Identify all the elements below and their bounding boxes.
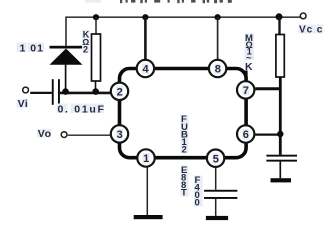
label inside U1 (rotated text column, upper part) [181, 114, 189, 156]
pin 4 [137, 60, 154, 77]
capacitor C2 [266, 155, 297, 179]
svg-text:4: 4 [143, 64, 150, 76]
svg-text:1 01: 1 01 [20, 42, 44, 54]
wire rail to pin 8 [217, 17, 219, 59]
wire Vo to pin 3 [68, 134, 110, 136]
svg-text:0. 01uF: 0. 01uF [58, 104, 106, 116]
clipped title text fragments at top [85, 0, 232, 3]
junction dot on rail above R1 [93, 14, 99, 20]
svg-text:8: 8 [215, 64, 221, 76]
diode D1 [50, 46, 83, 93]
pin 7 [237, 81, 254, 98]
svg-text:7: 7 [243, 85, 249, 97]
label Vi [17, 98, 29, 110]
svg-text:0: 0 [195, 198, 200, 209]
capacitor C1 [52, 79, 60, 105]
label C1 value 0.01uF [57, 104, 106, 116]
junction dot on rail above R2 [276, 13, 283, 20]
svg-text:Vo: Vo [38, 128, 52, 140]
Vo terminal [61, 132, 67, 138]
wire Vi to C1 [30, 92, 52, 94]
junction dot on rail above pin 4 [142, 14, 148, 20]
wire stub above pin 7 [244, 71, 247, 81]
IC U1 body [120, 69, 247, 158]
resistor R1 [92, 17, 101, 93]
label below U1 (rotated text column, lower part) [181, 165, 189, 199]
label above pin 7 (rotated "M Ω 1 ~ K") [245, 33, 255, 73]
wire pin 7 to R2 column [255, 87, 281, 90]
wire pin 1 to ground [146, 168, 148, 216]
pin 1 [137, 149, 154, 166]
junction dot on rail above pin 8 [215, 14, 221, 20]
Vi terminal [23, 87, 29, 93]
wire rail to pin 4 [144, 17, 147, 59]
wire C1 to pin 2 [60, 92, 110, 95]
junction dot diode/wire [62, 88, 69, 95]
capacitor C3 [204, 190, 237, 216]
label D1 value "1 01" [17, 42, 45, 54]
label Vo [37, 128, 52, 140]
Vcc terminal [300, 13, 306, 19]
svg-text:Vi: Vi [18, 98, 29, 110]
wire pin 5 to C3 [215, 168, 217, 190]
pin 3 [111, 125, 128, 142]
label Vcc [299, 25, 324, 36]
svg-text:3: 3 [117, 129, 123, 141]
svg-text:6: 6 [243, 129, 249, 141]
junction dot R1/wire [92, 88, 99, 95]
svg-text:5: 5 [213, 153, 219, 165]
pin 2 [111, 83, 128, 100]
svg-text:2: 2 [182, 145, 187, 156]
ground (right) [271, 178, 292, 182]
svg-text:2: 2 [83, 45, 88, 55]
svg-text:1: 1 [143, 153, 149, 165]
resistor R2 [276, 17, 284, 155]
pin 8 [209, 60, 226, 77]
pin 5 [207, 150, 224, 167]
wire pin 6 to R2 column [255, 134, 281, 136]
junction dot column/pin6 [277, 131, 283, 137]
top power rail wire [66, 17, 300, 46]
ground (pin 1) [134, 215, 163, 219]
svg-text:2: 2 [117, 86, 123, 98]
pin 6 [237, 125, 254, 142]
svg-text:T: T [181, 188, 187, 199]
label R1 value (rotated "K Ω 2") [82, 29, 90, 54]
svg-text:Vc c: Vc c [299, 25, 323, 36]
ground (C3) [206, 216, 228, 220]
label C3 value (rotated "F 4 0 0") [194, 175, 203, 209]
